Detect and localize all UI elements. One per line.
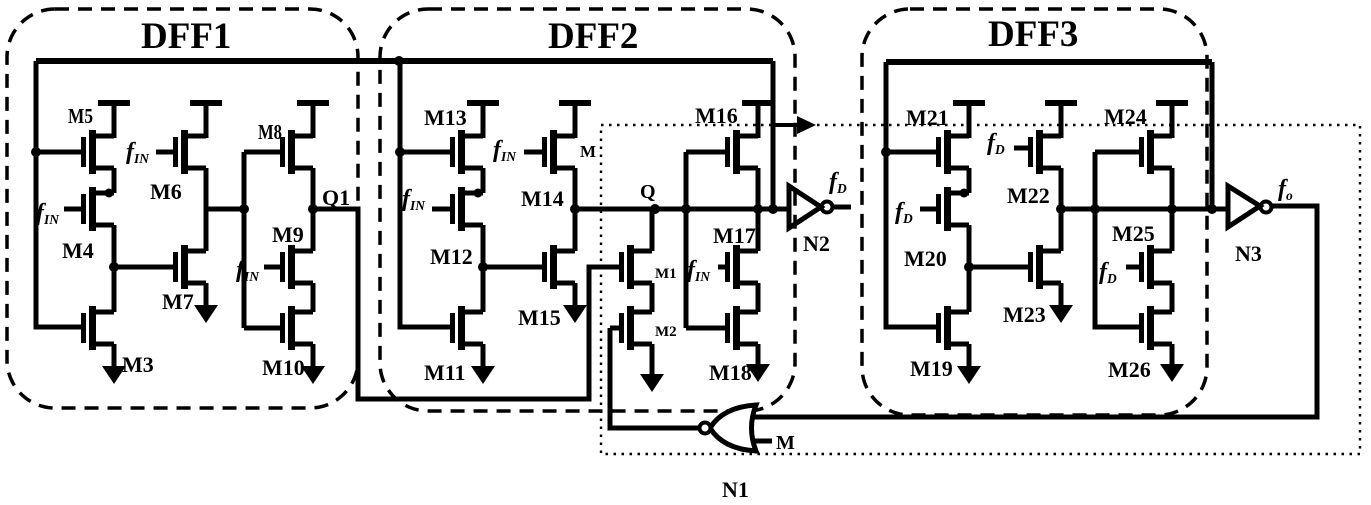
wire M22 source to M23 drain (1059, 168, 1064, 251)
wire M25 source to M26 drain (1170, 283, 1175, 312)
ground below M11 (471, 344, 495, 384)
svg-text:M6: M6 (150, 179, 182, 204)
svg-text:M20: M20 (904, 246, 947, 271)
wire lead to M7 gate (114, 265, 173, 270)
transistor M15 (545, 245, 576, 289)
svg-text:N3: N3 (1235, 241, 1262, 266)
wire M21 gate lead (886, 150, 937, 155)
svg-text:M7: M7 (162, 289, 194, 314)
transistor M2 (622, 306, 653, 350)
svg-text:M: M (776, 432, 795, 454)
wire M16 gate lead (686, 150, 726, 155)
node junction node to M23 gate (964, 262, 974, 272)
ground below M2 (640, 344, 664, 392)
transistor M25 (1142, 245, 1173, 289)
ground below M3 (102, 344, 126, 384)
transistor M26 (1142, 306, 1173, 350)
svg-text:M23: M23 (1003, 302, 1046, 327)
node junction / M24 source (1167, 204, 1177, 214)
ground below M15 (563, 283, 587, 323)
DFF1 block boundary (7, 9, 358, 408)
node junction left rail / M5 gate (31, 147, 41, 157)
transistor M18 (728, 306, 759, 350)
wire M21 source to M20 drain (967, 168, 972, 193)
node junction mid rail / tap (239, 204, 249, 214)
VDD supply above M21 (953, 103, 985, 138)
svg-text:M9: M9 (272, 222, 304, 247)
svg-text:M16: M16 (695, 103, 738, 128)
wire M4 gate lead (64, 207, 82, 212)
wire M14 source to M15 drain (573, 168, 578, 251)
node junction M21/M20 (960, 189, 969, 198)
wire M10 gate lead (244, 326, 280, 331)
transistor M1 (622, 245, 653, 289)
wire M8 source / M9 drain / node Q1 (311, 168, 316, 251)
ground below M18 (746, 344, 770, 382)
wire M18 gate lead (686, 326, 725, 331)
svg-text:M26: M26 (1108, 357, 1151, 382)
svg-text:M8: M8 (258, 120, 282, 144)
wire node to M25 drain (1170, 209, 1175, 251)
wire M6 gate lead (156, 150, 174, 155)
inverter N3 (1228, 186, 1272, 227)
inverter N2 (789, 186, 851, 228)
wire M13 source to M12 drain (481, 168, 486, 193)
svg-text:M21: M21 (906, 105, 949, 130)
node junction / DFF3 mid rail (1090, 204, 1100, 214)
node junction Q / M1 drain (650, 204, 660, 214)
transistor M10 (283, 306, 314, 350)
wire M9 gate lead (264, 265, 281, 270)
node junction Q3 column (1056, 204, 1066, 214)
wire M6 source to M7 drain (204, 168, 209, 251)
wire M17 gate lead (718, 265, 726, 270)
svg-text:DFF2: DFF2 (548, 16, 638, 57)
svg-text:M3: M3 (122, 352, 154, 377)
svg-text:N1: N1 (722, 477, 749, 500)
svg-text:M22: M22 (1007, 183, 1050, 208)
transistor M8 (283, 130, 314, 174)
wire feedback f_o to N1 input (753, 206, 1317, 417)
DFF3 block boundary (862, 9, 1207, 415)
transistor M11 (453, 306, 484, 350)
wire node to M17 drain (756, 209, 761, 251)
transistor M17 (728, 245, 759, 289)
ground below M26 (1160, 344, 1184, 382)
node junction / top rail drop (1207, 204, 1217, 214)
node junction left rail / M21 gate (881, 147, 891, 157)
node junction Q / top rail drop (768, 204, 778, 214)
wire M22 gate lead (1014, 146, 1029, 151)
VDD supply above M5 (98, 103, 130, 138)
svg-text:M24: M24 (1104, 104, 1147, 129)
wire M5 gate lead (36, 150, 82, 155)
wire node line to N3 (1061, 207, 1228, 212)
wire branch to arrow (773, 123, 797, 127)
svg-text:Q1: Q1 (322, 185, 350, 210)
dotted block boundary around N1 region (601, 125, 1360, 454)
svg-text:DFF1: DFF1 (141, 16, 231, 57)
transistor M12 (453, 187, 484, 231)
wire M1 source to M2 drain (650, 283, 655, 312)
wire wire Q1 to M1 gate (313, 209, 620, 399)
svg-text:M13: M13 (424, 105, 467, 130)
svg-text:M14: M14 (521, 186, 564, 211)
wire DFF3 left rail to M19 gate (886, 62, 936, 327)
transistor M7 (176, 245, 207, 289)
ground below M7 (194, 283, 218, 323)
svg-text:M25: M25 (1112, 221, 1155, 246)
wire DFF3 mid rail to M26 gate (1095, 152, 1139, 327)
node junction node to M7 gate (109, 262, 119, 272)
VDD supply above M14 (559, 103, 591, 138)
transistor M4 (84, 187, 115, 231)
wire M24 gate lead (1095, 150, 1139, 155)
transistor M16 (728, 130, 759, 174)
wire M20 source / M19 drain column (967, 225, 972, 312)
transistor M20 (939, 187, 970, 231)
node junction node Q column (570, 204, 580, 214)
svg-text:M15: M15 (518, 305, 561, 330)
wire M1 drain to node Q (650, 209, 655, 251)
wire lead to M23 gate (969, 265, 1028, 270)
wire M16 source to node (756, 168, 761, 209)
wire VDD top rail DFF1-DFF2 (36, 58, 773, 64)
svg-text:Q: Q (640, 181, 656, 203)
wire M9 source to M10 drain (311, 283, 316, 312)
wire M13 gate lead (400, 150, 451, 155)
DFF2 block boundary (380, 9, 795, 411)
transistor M21 (939, 130, 970, 174)
ground below M19 (957, 344, 981, 384)
VDD supply above M16 (742, 103, 774, 138)
wire N1 output to M2 gate (610, 328, 699, 428)
node junction left rail / M13 gate (395, 147, 405, 157)
wire node Q line to N2 (575, 207, 788, 212)
wire M5 source to M4 drain (112, 168, 117, 193)
svg-text:M12: M12 (430, 244, 473, 269)
VDD supply above M22 (1045, 103, 1077, 138)
VDD supply above M24 (1156, 103, 1188, 138)
transistor M3 (84, 306, 115, 350)
svg-text:M5: M5 (68, 104, 93, 128)
svg-text:M17: M17 (713, 223, 756, 248)
node node Q1 (308, 204, 318, 214)
VDD supply above M13 (467, 103, 499, 138)
wire M12 gate lead (432, 207, 451, 212)
wire M14 gate lead (524, 150, 543, 155)
wire DFF2 left rail to M11 gate (400, 61, 450, 327)
transistor M23 (1031, 245, 1062, 289)
wire M24 source to node (1170, 168, 1175, 209)
transistor M5 (84, 130, 115, 174)
svg-text:M19: M19 (910, 356, 953, 381)
svg-text:M10: M10 (262, 355, 305, 380)
node junction Q / mid rail (681, 204, 691, 214)
wire DFF1 left rail to M3 gate (36, 61, 81, 327)
wire DFF2 mid rail (684, 152, 689, 328)
node junction top rail / DFF2 left rail (394, 56, 404, 66)
svg-text:M: M (580, 142, 596, 161)
wire tap M6/M7 to mid rail (206, 207, 244, 212)
transistor M22 (1031, 130, 1062, 174)
svg-text:M2: M2 (655, 324, 677, 340)
wire VDD top rail DFF3 (886, 59, 1212, 65)
VDD supply above M6 (190, 103, 222, 138)
wire top rail drop to N2 input (771, 61, 776, 209)
svg-text:DFF3: DFF3 (988, 14, 1078, 55)
svg-text:M1: M1 (655, 266, 677, 282)
wire M20 gate lead (920, 207, 937, 212)
transistor M19 (939, 306, 970, 350)
ground below M23 (1049, 283, 1073, 323)
wire DFF3 top rail drop to N3 input (1210, 62, 1215, 209)
wire N1 input stub M (752, 439, 772, 444)
transistor M24 (1142, 130, 1173, 174)
svg-text:M18: M18 (709, 360, 752, 385)
svg-text:M4: M4 (62, 238, 94, 263)
wire M2 gate lead (610, 326, 619, 331)
node junction M13/M12 (474, 189, 483, 198)
transistor M6 (176, 130, 207, 174)
wire lead to M15 gate (483, 265, 542, 270)
transistor M14 (545, 130, 576, 174)
svg-text:N2: N2 (803, 231, 830, 256)
wire DFF1 mid rail (242, 152, 247, 328)
node junction M5/M4 (105, 189, 114, 198)
ground below M10 (301, 344, 325, 384)
NOR gate N1 (700, 405, 757, 451)
transistor M13 (453, 130, 484, 174)
transistor M9 (283, 245, 314, 289)
svg-text:M11: M11 (424, 360, 466, 385)
node junction node to M15 gate (478, 262, 488, 272)
node junction Q / M16 source (753, 204, 763, 214)
wire M8 gate lead (244, 150, 281, 155)
wire M4 source / M3 drain column (112, 225, 117, 312)
VDD supply above M8 (297, 103, 329, 138)
wire M17 source to M18 drain (756, 283, 761, 312)
wire M25 gate lead (1126, 265, 1139, 270)
arrowhead signal direction (797, 116, 816, 134)
wire M12 source / M11 drain column (481, 225, 486, 312)
